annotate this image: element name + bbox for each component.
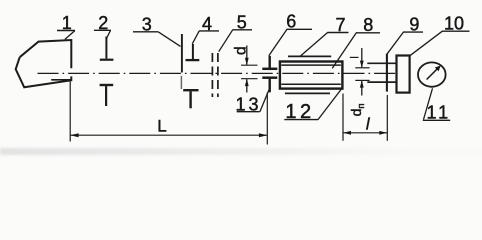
cell U8 inner bottom line	[281, 83, 341, 85]
screen A5 dashed plate left	[211, 53, 213, 97]
wire optical axis (dash-dot centerline)	[38, 72, 400, 74]
cell U7 body box	[280, 62, 343, 89]
dimension L left extension line	[69, 82, 71, 142]
dimension l right arrowhead	[379, 131, 387, 135]
diaphragm A2 bottom stem	[105, 86, 107, 106]
slit A13 bottom cap	[262, 76, 277, 79]
svg-text:L: L	[157, 116, 166, 135]
dimension L left arrowhead	[70, 133, 78, 137]
underline label 1	[57, 30, 75, 32]
dimension L right extension line	[266, 93, 268, 145]
diaphragm A2 top cap	[100, 59, 114, 61]
diaphragm A2 top stem	[105, 37, 107, 59]
underline label 13	[237, 111, 260, 113]
underline label 8	[356, 32, 380, 34]
svg-text:2: 2	[98, 13, 108, 33]
svg-text:1: 1	[62, 13, 72, 33]
underline label 5	[233, 29, 253, 31]
underline label 11	[423, 119, 450, 121]
slit A13 bottom stem	[269, 79, 271, 92]
dimension d lower arrowhead	[245, 79, 249, 86]
dimension d_p upper stem	[361, 48, 363, 67]
svg-text:12: 12	[285, 101, 314, 123]
dimension L line	[70, 134, 267, 136]
dimension d upper stem	[246, 46, 248, 65]
slit A13 top stem	[269, 56, 271, 68]
dimension d_p lower stem	[361, 81, 363, 96]
underline label 7	[327, 32, 348, 34]
laser U1 housing outline bottom	[16, 57, 72, 87]
svg-text:11: 11	[426, 102, 451, 122]
svg-text:10: 10	[444, 14, 464, 34]
leader line label 7	[300, 33, 327, 57]
cell U7 outer top line	[288, 55, 331, 57]
dimension l line	[343, 132, 387, 134]
dimension d_p upper arrowhead	[360, 61, 364, 68]
svg-text:13: 13	[235, 94, 261, 114]
underline label 2	[94, 29, 111, 31]
underline label 6	[287, 28, 313, 30]
indicator U11 dial circle	[418, 62, 446, 86]
leader line label 11	[424, 88, 433, 119]
slit A13 top cap	[262, 68, 277, 71]
dimension d_p lower tick	[355, 79, 369, 81]
lens A3 plate	[181, 34, 183, 73]
dimension d_p upper tick	[355, 67, 369, 69]
diaphragm A4 top stem	[192, 44, 194, 59]
leader line label 13	[260, 88, 270, 111]
underline label 3	[133, 31, 158, 33]
svg-text:4: 4	[202, 14, 212, 34]
dimension l right extension line	[386, 95, 388, 141]
scan noise band at bottom	[0, 148, 482, 155]
dimension d upper tick	[241, 64, 258, 66]
dimension d_p lower arrowhead	[360, 80, 364, 87]
detector tube bottom wall	[367, 81, 397, 83]
dimension d lower stem	[246, 79, 248, 92]
underline label 10	[442, 30, 470, 32]
leader line label 5	[219, 30, 233, 52]
laser internal tube line	[51, 79, 71, 81]
svg-text:3: 3	[142, 14, 152, 34]
underline label 12	[284, 119, 318, 121]
photodetector U10 box	[397, 56, 410, 93]
dimension L right arrowhead	[259, 133, 267, 137]
leader line label 3	[158, 32, 180, 47]
leader line label 4	[192, 31, 199, 44]
dimension l left extension line	[342, 94, 344, 141]
diaphragm A4 bottom stem	[189, 91, 191, 108]
svg-text:l: l	[366, 116, 371, 134]
lens A3 faint lower part	[180, 76, 182, 89]
leader line label 8	[332, 33, 356, 69]
diaphragm A4 bottom cap	[183, 89, 198, 91]
diaphragm A2 bottom cap	[100, 84, 114, 86]
screen A5 dashed plate right	[217, 53, 219, 97]
diaphragm A9 plate	[386, 54, 388, 92]
svg-text:d: d	[233, 46, 250, 55]
underline label 9	[403, 31, 423, 33]
detector tube top wall	[367, 62, 397, 64]
dimension d upper arrowhead	[245, 58, 249, 65]
diaphragm A4 top cap	[186, 59, 200, 61]
leader line label 6	[269, 29, 287, 56]
underline label 4	[199, 30, 219, 32]
indicator U11 needle arrowhead	[435, 66, 441, 72]
svg-text:5: 5	[237, 12, 247, 32]
indicator U11 needle	[427, 69, 438, 80]
cell U7 outer bottom line	[285, 92, 330, 94]
leader line label 2	[107, 30, 111, 38]
leader line label 12	[318, 88, 342, 119]
svg-text:7: 7	[335, 15, 345, 35]
dimension l left arrowhead	[343, 131, 351, 135]
leader line label 10	[410, 31, 442, 56]
cell U8 inner top line	[281, 64, 341, 66]
svg-text:dп: dп	[348, 103, 367, 116]
laser U1 housing outline top	[20, 40, 72, 68]
dimension d_p upper serif tick	[350, 56, 359, 58]
svg-text:6: 6	[286, 11, 296, 31]
leader line label 1	[65, 31, 75, 40]
svg-text:9: 9	[409, 14, 419, 34]
svg-text:8: 8	[363, 15, 373, 35]
dimension d lower tick	[241, 78, 258, 80]
leader line label 9	[387, 32, 404, 54]
